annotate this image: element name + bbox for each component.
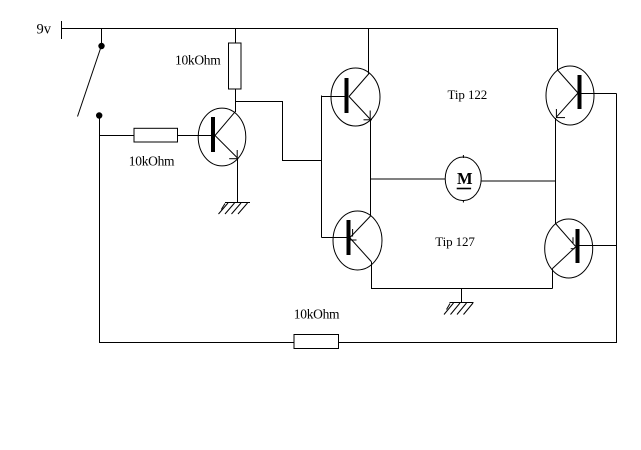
svg-text:10kOhm: 10kOhm bbox=[175, 53, 221, 68]
svg-text:Tip 122: Tip 122 bbox=[448, 87, 488, 102]
svg-text:10kOhm: 10kOhm bbox=[294, 306, 340, 321]
svg-text:9v: 9v bbox=[37, 22, 52, 38]
svg-text:10kOhm: 10kOhm bbox=[129, 153, 175, 168]
svg-text:M: M bbox=[457, 169, 473, 188]
svg-text:Tip 127: Tip 127 bbox=[435, 234, 475, 249]
